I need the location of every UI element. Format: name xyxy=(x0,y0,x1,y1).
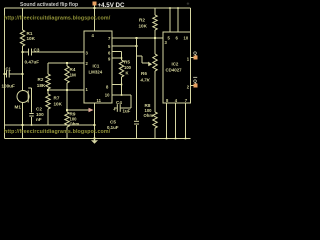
svg-text:nF: nF xyxy=(36,117,42,122)
svg-text:R5: R5 xyxy=(124,60,130,65)
svg-text:C3: C3 xyxy=(34,47,40,52)
svg-text:100uF: 100uF xyxy=(2,83,15,88)
svg-text:IC2: IC2 xyxy=(172,62,179,67)
svg-text:K: K xyxy=(126,71,129,76)
svg-text:R2: R2 xyxy=(139,18,145,23)
svg-text:10K: 10K xyxy=(139,24,148,29)
svg-text:R6: R6 xyxy=(141,71,147,76)
svg-text:LM324: LM324 xyxy=(89,70,103,75)
svg-text:Ohm: Ohm xyxy=(144,113,154,118)
svg-text:11: 11 xyxy=(97,98,102,103)
svg-text:R7: R7 xyxy=(54,96,60,101)
svg-text:+4.5V DC: +4.5V DC xyxy=(98,2,126,9)
svg-text:Sound activated flip flop: Sound activated flip flop xyxy=(20,2,78,8)
svg-text:100: 100 xyxy=(124,65,132,70)
svg-text:M1: M1 xyxy=(15,105,22,110)
svg-text:18K: 18K xyxy=(37,83,46,88)
svg-text:CD4027: CD4027 xyxy=(166,68,183,73)
svg-text:0.47uF: 0.47uF xyxy=(25,59,40,64)
svg-text:10K: 10K xyxy=(54,101,63,106)
svg-text:Q: Q xyxy=(193,50,197,55)
svg-text:4.7K: 4.7K xyxy=(140,78,151,83)
svg-text:+: + xyxy=(113,107,116,112)
svg-text:R4: R4 xyxy=(70,67,76,72)
svg-text:C1: C1 xyxy=(6,67,12,72)
svg-text:1uF: 1uF xyxy=(123,109,131,114)
svg-text:Ohm: Ohm xyxy=(70,122,80,127)
svg-text:1M: 1M xyxy=(70,73,77,78)
svg-text:R2: R2 xyxy=(38,77,44,82)
svg-text:http://freecircuitdiagrams.blo: http://freecircuitdiagrams.blogspot.com/ xyxy=(4,129,111,135)
svg-text:0.1uF: 0.1uF xyxy=(107,125,119,130)
svg-text:C4: C4 xyxy=(116,100,122,105)
svg-text:10: 10 xyxy=(184,35,189,40)
svg-text:IC1: IC1 xyxy=(93,64,100,69)
svg-text:Q: Q xyxy=(193,78,197,83)
svg-text:10K: 10K xyxy=(27,36,36,41)
svg-text:+: + xyxy=(187,2,190,8)
svg-text:http://freecircuitdiagrams.blo: http://freecircuitdiagrams.blogspot.com/ xyxy=(4,15,111,21)
svg-text:10: 10 xyxy=(105,92,110,97)
